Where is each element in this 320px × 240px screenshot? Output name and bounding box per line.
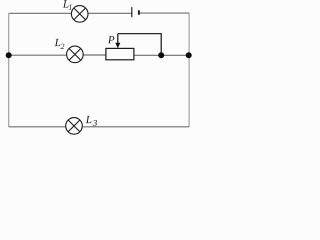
rheostat P wiper arrow bbox=[117, 34, 119, 45]
label L2 bbox=[55, 39, 65, 49]
rheostat P body bbox=[106, 48, 134, 59]
node: left junction dot bbox=[6, 52, 12, 58]
battery B (long plate) bbox=[131, 7, 133, 17]
wire middle-left: from left node to L2 bbox=[9, 54, 67, 56]
rheostat wiper wire: up-right-down to node bbox=[118, 34, 161, 56]
label P bbox=[108, 36, 115, 43]
wire top-middle: from L1 to battery bbox=[88, 12, 132, 14]
lamp L2 bbox=[67, 46, 84, 63]
wire bottom-left: from bottom-left corner to L3 bbox=[9, 126, 66, 128]
wire top-right: from battery to top-right corner bbox=[139, 12, 189, 14]
lamp L1 bbox=[71, 6, 88, 23]
battery B (short thick plate) bbox=[138, 10, 140, 15]
wire left vertical bbox=[8, 13, 10, 127]
node: right junction dot bbox=[186, 52, 192, 58]
node: wiper junction dot bbox=[158, 52, 164, 58]
wire middle: from L2 to rheostat P bbox=[83, 54, 106, 56]
label L1 bbox=[63, 0, 72, 9]
wire top-left: from top-left corner to L1 bbox=[9, 12, 72, 14]
label L3 bbox=[86, 116, 97, 126]
wire bottom-right: from L3 to bottom-right corner bbox=[82, 126, 189, 128]
wire right vertical bbox=[188, 13, 190, 127]
lamp L3 bbox=[66, 118, 83, 135]
wire middle-right: from rheostat P to right vertical wire bbox=[134, 54, 189, 56]
